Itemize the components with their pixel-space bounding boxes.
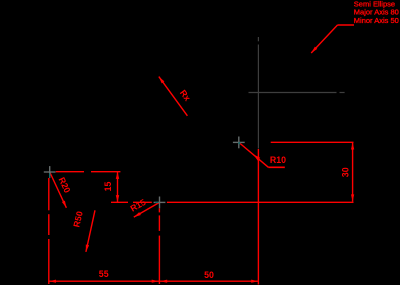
svg-text:55: 55 — [99, 269, 109, 279]
svg-text:30: 30 — [340, 167, 350, 177]
svg-text:R10: R10 — [270, 155, 286, 165]
svg-text:50: 50 — [204, 270, 214, 280]
svg-text:15: 15 — [103, 182, 113, 192]
svg-text:Minor Axis 50: Minor Axis 50 — [354, 16, 399, 25]
